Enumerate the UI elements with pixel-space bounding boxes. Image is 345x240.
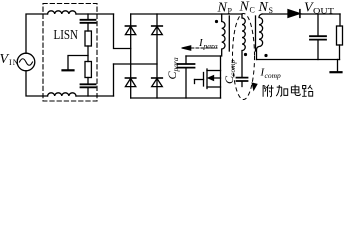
wire output right corner [339,14,341,26]
ground LISN [63,69,74,71]
svg-text:para: para [203,41,218,50]
transformer core [228,16,230,51]
arrow Icomp [252,83,257,90]
resistor LISN top [85,31,91,46]
diode D4 [152,77,163,79]
diode D1 [125,25,135,27]
resistor LISN bottom [85,62,91,78]
dashed ellipse Icomp loop [233,14,255,100]
capacitor Ccomp [237,78,248,81]
wire bridge top rail [131,13,242,15]
svg-text:Cpara: Cpara [165,57,180,79]
diode output [288,10,300,18]
svg-text:IN: IN [9,58,19,67]
diode D3 [125,77,135,79]
wire bridge bottom rail [131,97,221,99]
wire VIN bottom lead [26,71,48,96]
arrow Ipara [191,47,217,49]
node dot NP [215,20,218,23]
wire AC line to bridge [114,14,131,49]
svg-text:comp: comp [265,71,281,80]
wire bridge left leg [130,14,132,98]
wire bridge right leg [156,14,158,98]
capacitor Cpara [185,56,187,63]
wire VIN top lead [26,14,48,53]
MOSFET Q1 [220,56,222,98]
char dian [291,85,300,96]
svg-text:LISN: LISN [54,28,79,43]
svg-text:P: P [228,7,233,16]
LISN dashed box [43,4,97,102]
transformer primary NP [222,14,225,56]
wire output top rail [262,13,340,15]
label Ccomp rotated [222,59,237,84]
label 附加电路 hand-drawn [263,85,313,97]
svg-text:N: N [258,0,269,15]
node dot NC [244,53,247,56]
transformer core line 2 [255,16,257,51]
capacitor output [317,14,319,35]
diode D2 [152,25,163,27]
wire drain node [186,55,221,57]
transformer winding NC [242,14,245,77]
resistor load [337,26,343,45]
svg-text:N: N [239,0,250,15]
ground output [337,60,339,72]
wire [87,46,89,62]
inductor LISN bottom choke [48,93,76,96]
wire output bottom rail [257,59,340,61]
char jia [276,85,288,96]
svg-text:N: N [217,1,228,16]
wire AC neutral to bridge [113,64,115,96]
label Cpara rotated [165,57,180,79]
svg-text:C: C [250,6,255,15]
inductor LISN top choke [48,11,76,14]
wire [87,78,89,84]
node dot NS [264,54,267,57]
capacitor LISN top [87,14,89,19]
char lu [302,85,313,96]
wire [76,95,114,97]
wire [76,13,114,15]
char fu [263,85,274,97]
AC source VIN [17,53,35,71]
svg-text:OUT: OUT [313,7,334,16]
wire ground tap [68,56,88,70]
svg-text:Ccomp: Ccomp [222,59,237,84]
transformer secondary NS [257,14,263,60]
capacitor LISN bottom [81,84,96,87]
svg-text:S: S [269,6,273,15]
